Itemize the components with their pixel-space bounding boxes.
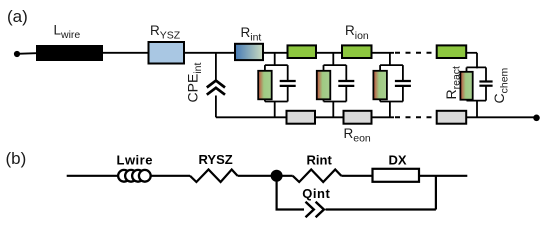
resistor R_eon box2 xyxy=(344,111,372,124)
wire cell1 drop xyxy=(274,53,276,66)
resistor R_react xyxy=(460,72,472,100)
wire CPE branch lower xyxy=(215,96,217,118)
inductor Lwire coils xyxy=(118,170,151,182)
svg-text:RYSZ: RYSZ xyxy=(199,152,233,167)
wire dashed top xyxy=(395,52,436,54)
wire cell3 drop xyxy=(389,53,391,66)
resistor cell3 vertical xyxy=(373,71,387,100)
wire bottom rail 2 xyxy=(315,116,344,118)
capacitor C_chem xyxy=(479,82,492,86)
wire xyxy=(372,52,395,54)
CPE_int symbol xyxy=(207,81,225,95)
wire xyxy=(151,175,190,177)
wire b branch right rise xyxy=(435,176,437,210)
resistor Rint zigzag xyxy=(293,170,342,183)
wire bottom rail 1 xyxy=(216,116,287,118)
svg-text:DX: DX xyxy=(389,153,407,168)
wire CPE branch down xyxy=(215,53,217,80)
resistor cell1 vertical xyxy=(258,71,272,100)
wire xyxy=(341,175,372,177)
wire b branch bottom left xyxy=(276,208,305,210)
resistor R_ion box2 xyxy=(342,45,372,58)
CPE Qint symbol xyxy=(306,202,324,217)
resistor R_int xyxy=(235,44,263,60)
resistor R_YSZ xyxy=(149,42,185,64)
resistor R_eon box1 xyxy=(287,111,316,124)
wire xyxy=(466,52,477,54)
terminal right xyxy=(533,115,540,122)
wire b branch left drop xyxy=(276,176,278,210)
inductor L_wire xyxy=(36,45,103,61)
resistor final gray xyxy=(437,111,467,124)
wire xyxy=(184,52,235,54)
svg-text:(b): (b) xyxy=(6,149,27,168)
capacitor cell1 xyxy=(280,81,296,86)
wire b main left xyxy=(67,175,119,177)
element DX box xyxy=(373,169,420,182)
resistor R_ion box1 xyxy=(288,45,317,58)
node final RC xyxy=(467,67,487,117)
wire bottom rail 4 xyxy=(466,116,536,118)
wire xyxy=(277,175,293,177)
wire xyxy=(17,52,36,55)
resistor cell2 vertical xyxy=(317,71,331,100)
wire xyxy=(316,52,342,54)
terminal left xyxy=(14,51,20,57)
wire final drop top xyxy=(476,53,478,69)
wire bottom rail 3 xyxy=(372,116,395,118)
wire dashed bottom xyxy=(395,116,436,118)
capacitor cell2 xyxy=(338,81,354,86)
capacitor cell3 xyxy=(395,81,411,86)
wire xyxy=(238,175,277,177)
svg-text:Qint: Qint xyxy=(302,186,330,201)
wire xyxy=(103,52,149,54)
svg-text:(a): (a) xyxy=(7,7,28,26)
node cell1 RC xyxy=(265,65,288,117)
wire xyxy=(419,175,467,177)
wire b branch bottom right xyxy=(326,208,436,210)
wire cell2 drop xyxy=(332,53,334,66)
node junction dot xyxy=(271,170,283,182)
resistor RYSZ zigzag xyxy=(190,170,238,183)
svg-text:Lwire: Lwire xyxy=(117,153,153,168)
node cell3 RC xyxy=(380,65,403,117)
wire xyxy=(263,52,288,54)
svg-text:Rint: Rint xyxy=(307,153,333,168)
node cell2 RC xyxy=(324,65,347,117)
resistor final green xyxy=(437,45,467,58)
